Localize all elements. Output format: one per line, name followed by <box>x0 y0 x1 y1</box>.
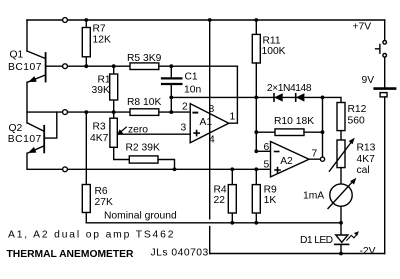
resistor R4 <box>228 169 236 223</box>
svg-text:R2 39K: R2 39K <box>126 143 160 154</box>
svg-text:R1: R1 <box>98 74 111 85</box>
svg-text:BC107: BC107 <box>8 62 42 73</box>
R3 wiper zero arrow <box>118 127 191 134</box>
wire A1 feedback / diode line y97.4 <box>171 97 341 102</box>
svg-text:BC107: BC107 <box>8 134 42 145</box>
svg-text:6: 6 <box>264 142 270 153</box>
svg-text:4K7: 4K7 <box>90 133 109 144</box>
diode D2a 1N4148 <box>274 94 282 101</box>
transistor Q1 <box>27 51 46 82</box>
transistor Q2 <box>27 123 44 153</box>
svg-text:R9: R9 <box>264 185 277 196</box>
A2 output terminal circle <box>320 157 324 161</box>
wire A1 supply pins 8-4 <box>209 20 211 254</box>
svg-text:3: 3 <box>181 123 187 134</box>
resistor R12 <box>337 103 345 141</box>
potentiometer R3 <box>110 112 117 147</box>
svg-text:R6: R6 <box>95 186 108 197</box>
svg-text:A1, A2 dual op amp TS462: A1, A2 dual op amp TS462 <box>8 229 175 240</box>
svg-text:JLs 040703: JLs 040703 <box>151 248 209 259</box>
svg-text:4: 4 <box>209 135 215 146</box>
wire Q1 collector riser <box>26 20 28 51</box>
svg-text:A2: A2 <box>280 156 293 167</box>
resistor R1 <box>110 66 118 112</box>
diode D2b 1N4148 <box>296 94 304 101</box>
svg-text:39K: 39K <box>92 85 110 96</box>
wire battery positive from button <box>384 20 386 87</box>
resistor R9 <box>252 169 260 223</box>
wire Q2 collector/base node line y112 <box>27 111 190 113</box>
svg-text:R8 10K: R8 10K <box>127 97 161 108</box>
capacitor C1 <box>162 66 181 112</box>
svg-text:R13: R13 <box>357 143 376 154</box>
svg-text:D1 LED: D1 LED <box>300 235 333 246</box>
svg-text:12K: 12K <box>93 35 111 46</box>
svg-text:R10 18K: R10 18K <box>274 116 314 127</box>
svg-text:+7V: +7V <box>353 22 372 33</box>
wire A1 output to feedback riser <box>229 66 238 123</box>
trimmer R13 <box>329 138 354 184</box>
svg-text:9V: 9V <box>362 75 375 86</box>
svg-text:560: 560 <box>348 115 365 126</box>
svg-text:1mA: 1mA <box>303 191 324 202</box>
svg-text:R5 3K9: R5 3K9 <box>127 53 162 64</box>
svg-text:zero: zero <box>128 125 148 136</box>
svg-text:-2V: -2V <box>360 246 376 257</box>
svg-text:5: 5 <box>264 160 270 171</box>
svg-text:Nominal ground: Nominal ground <box>104 211 177 222</box>
svg-text:R7: R7 <box>93 24 106 35</box>
svg-text:1K: 1K <box>264 195 277 206</box>
svg-text:100K: 100K <box>262 46 286 57</box>
svg-text:Q1: Q1 <box>10 49 24 60</box>
svg-text:2×1N4148: 2×1N4148 <box>267 83 312 94</box>
wire +7V top rail <box>27 19 385 21</box>
resistor R7 <box>82 20 90 66</box>
svg-text:THERMAL ANEMOMETER: THERMAL ANEMOMETER <box>7 249 135 260</box>
svg-text:7: 7 <box>312 149 318 160</box>
svg-text:8: 8 <box>209 104 215 115</box>
wire Q1 base line / R5 node line y66 <box>46 65 238 67</box>
wire R3 bottom to R2 <box>114 147 130 159</box>
svg-text:2: 2 <box>182 102 188 113</box>
svg-text:22: 22 <box>214 195 226 206</box>
resistor R6 <box>82 112 90 223</box>
wire Q2 base riser <box>44 112 57 138</box>
resistor R5 <box>130 63 159 70</box>
LED D1 <box>335 223 359 254</box>
svg-text:R4: R4 <box>214 185 227 196</box>
svg-text:R12: R12 <box>348 104 367 115</box>
meter M 1mA <box>328 178 356 222</box>
resistor R11 <box>252 20 260 151</box>
op-amp A2 <box>271 142 310 177</box>
op-amp A1 <box>190 104 229 143</box>
resistor R10 <box>256 129 322 136</box>
svg-text:1: 1 <box>230 112 236 123</box>
svg-text:4K7: 4K7 <box>357 154 376 165</box>
resistor R8 <box>130 109 159 116</box>
op-amp A1 input marks <box>192 113 200 137</box>
svg-text:cal: cal <box>357 165 370 176</box>
connector terminal circles <box>63 18 68 23</box>
wire Q2 emitter down and line y169 <box>27 153 271 169</box>
push button S1 <box>376 41 387 58</box>
wire Q1 emitter to Q2 collector <box>26 82 28 123</box>
wire -2V rail <box>210 253 385 255</box>
wire A2 output <box>309 97 323 159</box>
op-amp A2 input marks <box>274 152 281 174</box>
svg-text:C1: C1 <box>185 72 198 83</box>
svg-text:R3: R3 <box>93 122 106 133</box>
svg-text:10n: 10n <box>184 85 201 96</box>
svg-text:Q2: Q2 <box>9 123 23 134</box>
svg-text:A1: A1 <box>200 117 213 128</box>
wire nominal ground rail <box>86 222 341 224</box>
svg-text:27K: 27K <box>95 197 113 208</box>
battery 9V <box>375 89 395 254</box>
wire A2 pin6 stub <box>256 150 270 152</box>
resistor R2 <box>129 156 174 169</box>
